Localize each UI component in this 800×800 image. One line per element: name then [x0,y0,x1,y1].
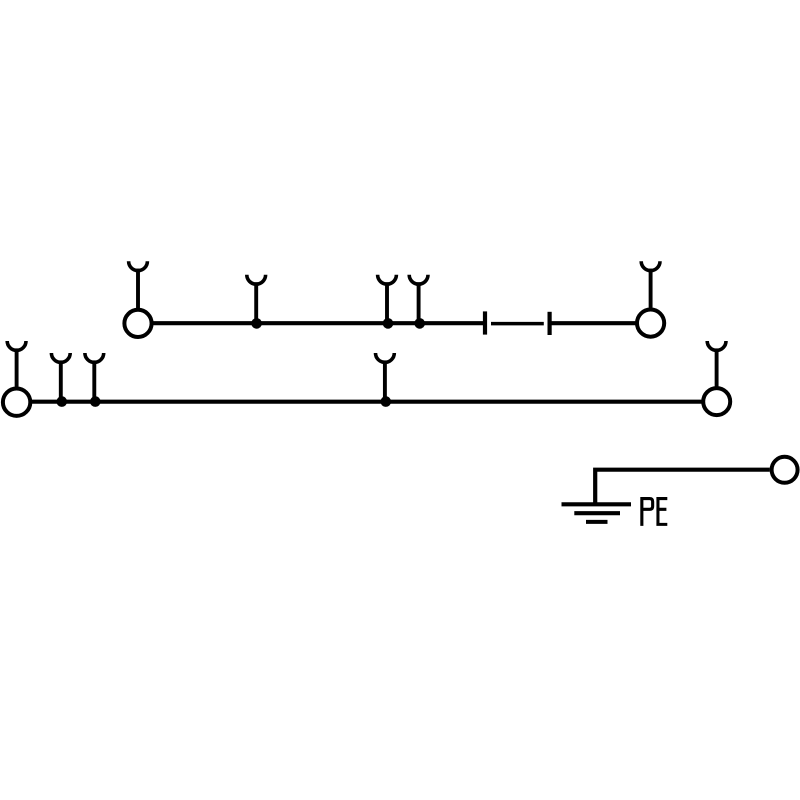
clamp contact arc 4 rail 2 [376,353,395,362]
clamp contact arc over left socket rail 1 [129,261,148,270]
clamp contact stem over left socket rail 2 [15,348,19,392]
socket circle left rail 2 [3,389,30,416]
clamp contact stem 3 rail 1 [385,282,389,323]
clamp contact arc 2 rail 2 [51,353,70,362]
clamp contact arc 3 rail 2 [85,353,104,362]
clamp contact arc 4 rail 1 [409,275,428,284]
socket circle left rail 1 [124,310,151,337]
clamp contact stem over left socket rail 1 [136,269,140,312]
ground symbol bar 3 [586,520,608,524]
junction dot 3 rail 1 [383,318,394,329]
clamp contact stem 4 rail 2 [383,360,387,401]
clamp contact arc over right socket rail 1 [641,261,660,270]
disconnect link bridge [491,322,544,326]
clamp contact stem 4 rail 1 [417,282,421,323]
disconnect link left bar [483,311,487,334]
junction dot 2 rail 2 [57,396,68,407]
ground symbol bar 2 [574,511,620,515]
label PE letter P [642,499,653,526]
clamp contact stem 2 rail 1 [254,282,258,323]
clamp contact stem over right socket rail 1 [649,269,653,312]
junction dot 4 rail 1 [414,318,425,329]
clamp contact arc 3 rail 1 [378,275,397,284]
label PE letter E [656,497,667,526]
wire PE conductor [595,470,770,504]
clamp contact stem 2 rail 2 [59,360,63,401]
socket circle PE [772,457,798,483]
junction dot 3 rail 2 [90,396,101,407]
clamp contact arc over right socket rail 2 [707,341,726,350]
clamp contact arc 2 rail 1 [247,275,266,284]
wire bus rail 1 left segment [138,321,485,325]
clamp contact arc over left socket rail 2 [7,341,26,350]
wire bus rail 2 [17,400,717,404]
socket circle right rail 1 [637,310,664,337]
ground symbol bar 1 [562,502,632,506]
disconnect link right bar [547,312,551,335]
junction dot 2 rail 1 [251,318,262,329]
socket circle right rail 2 [703,388,730,415]
wire bus rail 1 right segment [550,321,651,325]
junction dot 4 rail 2 [381,396,392,407]
clamp contact stem 3 rail 2 [92,360,96,401]
clamp contact stem over right socket rail 2 [715,348,719,390]
